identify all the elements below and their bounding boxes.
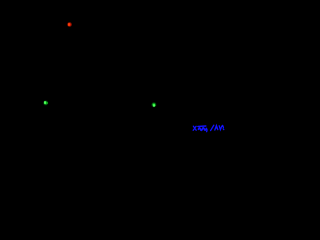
signature initial X [193, 126, 196, 130]
signature top bar [198, 125, 206, 127]
green light A wing [46, 102, 48, 104]
green light B glow [151, 102, 157, 108]
signature zigzag [215, 125, 224, 130]
red light core [68, 23, 70, 26]
green light A glow [43, 100, 49, 106]
signature descender [205, 128, 208, 132]
signature slash [211, 125, 214, 130]
red light glow [67, 22, 72, 27]
green light A core [44, 101, 46, 104]
green light B core [153, 104, 155, 107]
blue signature [190, 123, 225, 134]
signature bumps [199, 127, 207, 130]
green light B wing [155, 105, 157, 107]
